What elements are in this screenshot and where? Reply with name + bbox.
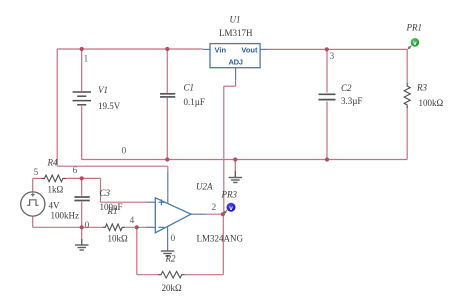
svg-text:U1: U1 bbox=[230, 15, 241, 25]
svg-text:0: 0 bbox=[122, 146, 127, 156]
svg-text:Vout: Vout bbox=[241, 45, 258, 54]
svg-text:R4: R4 bbox=[47, 158, 58, 168]
svg-text:PR3: PR3 bbox=[221, 190, 238, 200]
svg-text:20kΩ: 20kΩ bbox=[162, 283, 183, 293]
svg-text:0: 0 bbox=[85, 221, 90, 231]
svg-text:1kΩ: 1kΩ bbox=[48, 185, 64, 195]
svg-text:5: 5 bbox=[34, 168, 39, 178]
svg-text:4V: 4V bbox=[49, 201, 61, 211]
svg-text:0.1µF: 0.1µF bbox=[184, 97, 205, 107]
svg-text:3: 3 bbox=[330, 52, 335, 62]
svg-text:19.5V: 19.5V bbox=[98, 101, 121, 111]
svg-text:100kHz: 100kHz bbox=[51, 211, 80, 221]
svg-text:1: 1 bbox=[84, 54, 89, 64]
svg-text:ADJ: ADJ bbox=[229, 58, 243, 67]
svg-text:LM317H: LM317H bbox=[219, 28, 253, 38]
svg-text:0: 0 bbox=[171, 234, 176, 244]
svg-text:3.3µF: 3.3µF bbox=[341, 96, 362, 106]
svg-text:PR1: PR1 bbox=[406, 22, 423, 32]
svg-text:Vin: Vin bbox=[215, 45, 227, 54]
svg-text:C1: C1 bbox=[184, 83, 195, 93]
svg-text:v: v bbox=[229, 205, 233, 212]
svg-text:U2A: U2A bbox=[196, 182, 213, 192]
svg-text:LM324ANG: LM324ANG bbox=[197, 234, 244, 244]
svg-text:10kΩ: 10kΩ bbox=[108, 234, 129, 244]
svg-text:2: 2 bbox=[212, 203, 217, 213]
svg-text:C2: C2 bbox=[341, 83, 352, 93]
svg-text:V1: V1 bbox=[98, 85, 108, 95]
svg-text:R3: R3 bbox=[416, 83, 427, 93]
svg-text:R2: R2 bbox=[165, 254, 176, 264]
svg-text:100nF: 100nF bbox=[100, 202, 123, 212]
svg-text:6: 6 bbox=[73, 166, 78, 176]
svg-text:4: 4 bbox=[130, 216, 135, 226]
svg-text:100kΩ: 100kΩ bbox=[419, 98, 444, 108]
svg-text:v: v bbox=[413, 40, 417, 47]
svg-text:C3: C3 bbox=[100, 188, 111, 198]
